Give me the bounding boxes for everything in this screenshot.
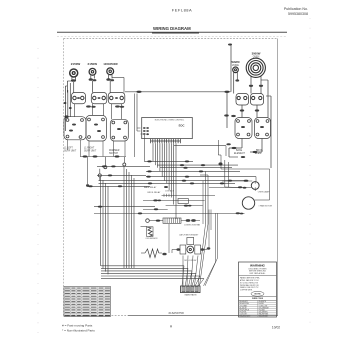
resistor R1 oven sensor xyxy=(141,226,148,228)
wire vent feed xyxy=(150,220,164,222)
left margin dotted artifact xyxy=(37,48,39,338)
wire RR terminals xyxy=(90,75,92,79)
wire EOC vertical drops xyxy=(152,143,154,161)
right front switch block xyxy=(86,115,106,141)
wire right mid verticals xyxy=(224,160,226,187)
svg-text:PR=PURPLE: PR=PURPLE xyxy=(240,309,250,311)
svg-text:BL=BLUE: BL=BLUE xyxy=(240,307,247,309)
wire warm zone drop xyxy=(233,72,235,93)
wire row y200 xyxy=(143,199,205,201)
wire latch drops to connector xyxy=(182,256,184,286)
svg-text:LATCH MOTOR ASSY: LATCH MOTOR ASSY xyxy=(179,233,199,236)
electronic oven control EOC xyxy=(142,118,193,139)
wire oven cavity top xyxy=(217,140,219,155)
svg-text:Y=YELLOW: Y=YELLOW xyxy=(259,305,268,307)
wire sensor link down xyxy=(168,224,170,253)
svg-text:5995380308: 5995380308 xyxy=(288,12,308,16)
wire latch right verticals xyxy=(208,210,210,249)
svg-text:MAIN HARN: MAIN HARN xyxy=(185,293,197,296)
junction node C xyxy=(98,174,101,177)
oven radiant element coil xyxy=(246,58,265,77)
svg-text:V=VIOLET: V=VIOLET xyxy=(240,314,248,316)
svg-text:BAKE RELAY: BAKE RELAY xyxy=(144,186,157,189)
svg-text:* = Non-illustrated Parts: * = Non-illustrated Parts xyxy=(62,329,95,333)
svg-text:W=WHITE: W=WHITE xyxy=(259,301,267,303)
wire row y195 xyxy=(162,194,216,196)
svg-text:WB=WHT/BK: WB=WHT/BK xyxy=(259,314,270,316)
surface unit receptacle RR xyxy=(89,68,96,75)
wire block bottom stubs xyxy=(67,140,69,150)
convection fan motor xyxy=(242,197,254,209)
diagram border frame xyxy=(64,38,278,40)
wire label blobs under switches xyxy=(86,105,91,107)
wire fan return xyxy=(255,199,270,201)
svg-text:GB=GRN/BK: GB=GRN/BK xyxy=(259,316,269,318)
legend table text marks xyxy=(65,288,70,289)
svg-text:# = Fast-moving Parts: # = Fast-moving Parts xyxy=(62,324,93,328)
broil control block xyxy=(255,118,271,139)
svg-text:EOC: EOC xyxy=(179,123,185,127)
surface switch S3 xyxy=(108,93,125,104)
svg-text:R=RED: R=RED xyxy=(259,303,265,305)
left front switch block xyxy=(64,117,86,140)
wire RF terminals xyxy=(108,75,110,79)
svg-text:ELEM: ELEM xyxy=(255,153,261,155)
wire lamp feed lower xyxy=(209,187,252,189)
resistor R2 element zigzag xyxy=(145,249,159,258)
svg-text:L1 RIGHT: L1 RIGHT xyxy=(84,148,95,150)
svg-text:ELEMENT: ELEMENT xyxy=(234,153,245,155)
wire color legend table xyxy=(64,287,111,317)
svg-text:CONVECTION FAN: CONVECTION FAN xyxy=(184,223,201,226)
wire long run y213 xyxy=(94,212,245,214)
svg-text:2150W: 2150W xyxy=(71,62,81,66)
surface switch S1 xyxy=(72,93,86,104)
wire bake row join xyxy=(229,147,242,149)
svg-text:BR=BROWN: BR=BROWN xyxy=(240,303,250,305)
svg-text:2150W: 2150W xyxy=(88,62,98,66)
svg-text:BAKE: BAKE xyxy=(236,149,243,152)
EOC pin comb xyxy=(150,139,152,144)
wire left edge bus 2 xyxy=(67,90,69,117)
junction node B xyxy=(123,163,126,166)
wire bake feed arrows xyxy=(224,114,229,116)
surface unit receptacle RF xyxy=(107,68,114,75)
svg-text:3000W: 3000W xyxy=(252,52,261,56)
wire row y209 xyxy=(143,208,168,210)
relay K1 box xyxy=(178,199,188,204)
warmer switch block xyxy=(110,119,128,141)
surface switch S2 xyxy=(91,93,107,104)
EOC left pins xyxy=(143,127,146,129)
wire oven element drops xyxy=(250,77,252,85)
bake control block xyxy=(235,118,252,139)
header rule ghost xyxy=(57,36,287,38)
wire left vertical bundle 1 xyxy=(100,177,102,266)
wire vent out terminals xyxy=(181,220,186,222)
wire left edge bus 3 xyxy=(69,83,71,117)
wire switch feed down xyxy=(134,94,136,158)
oven lamp xyxy=(251,182,259,190)
wire L1 feed top xyxy=(230,44,232,92)
svg-text:DR LOCK SW: DR LOCK SW xyxy=(184,260,196,262)
svg-text:SURF UNIT: SURF UNIT xyxy=(64,151,77,153)
warmer control switch xyxy=(236,94,249,106)
wire mid vertical bundle 2 xyxy=(123,166,125,268)
wire right verticals xyxy=(267,80,269,118)
wire fan horizontal runs xyxy=(144,160,193,162)
svg-text:L1 LEFT: L1 LEFT xyxy=(64,148,73,150)
svg-text:COPPER WIRE.: COPPER WIRE. xyxy=(240,290,253,292)
wire run into lamp top xyxy=(255,177,257,182)
svg-text:Publication No.: Publication No. xyxy=(284,7,308,11)
svg-text:WIRING DIAGRAM: WIRING DIAGRAM xyxy=(153,26,191,31)
wire double vertical to connector xyxy=(205,171,207,224)
wire bus elbows into connector xyxy=(182,266,184,286)
svg-text:FEFL88A: FEFL88A xyxy=(172,8,192,13)
wire cluster under switches xyxy=(80,156,126,158)
svg-text:GN=GREEN: GN=GREEN xyxy=(259,312,269,314)
wire long run to right circuit xyxy=(125,91,231,93)
surface unit receptacle LF xyxy=(70,69,78,77)
svg-text:RW=RED/WHT: RW=RED/WHT xyxy=(240,316,251,318)
wire latch connections xyxy=(172,249,177,251)
svg-text:BROIL RELAY: BROIL RELAY xyxy=(148,191,162,194)
wire L1 left bus xyxy=(64,86,66,131)
svg-text:WIRE CODE: WIRE CODE xyxy=(252,298,264,300)
warning box xyxy=(239,262,277,317)
wire run upper right xyxy=(174,145,226,147)
wire EOC left drop xyxy=(143,135,145,161)
wire right drops xyxy=(226,92,228,128)
svg-text:SWITCH: SWITCH xyxy=(109,153,118,155)
wire feed to EOC left pins xyxy=(136,94,138,132)
header rule xyxy=(57,31,287,33)
wire right pair down xyxy=(215,213,217,262)
warm zone element xyxy=(233,67,239,73)
terminal T1 xyxy=(146,219,150,223)
right margin dotted artifact xyxy=(309,18,311,330)
note oval xyxy=(251,291,264,296)
wire row y205 xyxy=(166,205,203,207)
oven vent heater (hatched bar) xyxy=(163,218,181,223)
oven relay switch xyxy=(251,94,264,106)
svg-text:SURF UNIT: SURF UNIT xyxy=(84,151,97,153)
svg-text:ELECTRONIC OVEN CONTROL: ELECTRONIC OVEN CONTROL xyxy=(155,119,185,121)
warning wire code table xyxy=(239,301,277,303)
svg-text:PK=PINK: PK=PINK xyxy=(240,312,248,314)
wire lamp bottom stub xyxy=(254,189,256,191)
wire RF to switch jog xyxy=(112,77,124,79)
wire bottom bus runs xyxy=(101,265,184,267)
svg-text:10/02: 10/02 xyxy=(272,326,280,330)
frame bottom solid segment xyxy=(128,315,278,317)
wire bake block outlet xyxy=(241,139,243,149)
svg-text:WARMER: WARMER xyxy=(109,149,120,152)
wire lamp feed upper xyxy=(222,180,252,182)
svg-text:WARNING: WARNING xyxy=(250,263,266,267)
svg-text:1200/2500W: 1200/2500W xyxy=(103,63,118,66)
svg-text:NOTE: NOTE xyxy=(254,294,261,296)
svg-text:OVEN LAMP: OVEN LAMP xyxy=(258,191,270,194)
wire LF terminals xyxy=(71,77,73,81)
junction node A xyxy=(104,166,107,169)
svg-text:316259758: 316259758 xyxy=(168,311,184,315)
wire lower right run xyxy=(236,212,240,214)
wire switch drops xyxy=(74,104,76,117)
svg-text:UNIT. REPLACE ALL: UNIT. REPLACE ALL xyxy=(250,272,266,275)
svg-text:OVN SENSOR: OVN SENSOR xyxy=(146,238,159,240)
svg-text:# FAN MOTOR: # FAN MOTOR xyxy=(259,205,273,208)
main harness connector P1 xyxy=(181,286,201,293)
svg-text:CONTACT: CONTACT xyxy=(165,190,174,193)
